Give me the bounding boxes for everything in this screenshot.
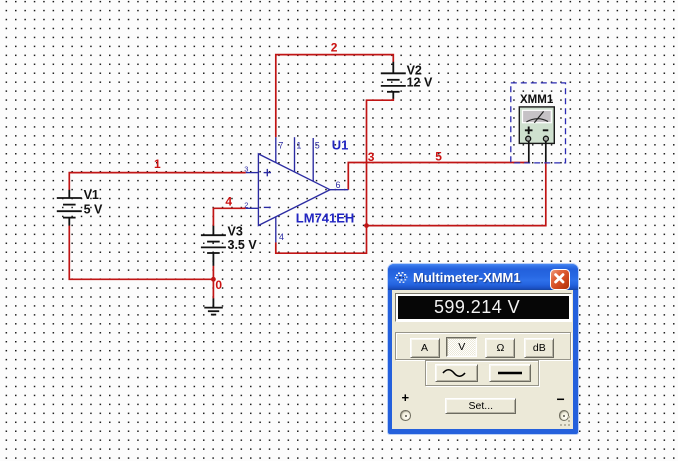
svg-text:3.5 V: 3.5 V xyxy=(228,238,258,252)
svg-text:XMM1: XMM1 xyxy=(520,94,554,106)
svg-text:4: 4 xyxy=(225,195,232,209)
svg-text:U1: U1 xyxy=(332,138,349,153)
svg-text:7: 7 xyxy=(278,140,283,150)
svg-text:1: 1 xyxy=(154,157,161,171)
svg-text:12 V: 12 V xyxy=(407,76,433,90)
svg-text:1: 1 xyxy=(296,140,301,150)
svg-text:V1: V1 xyxy=(84,188,99,202)
svg-text:V3: V3 xyxy=(228,225,243,239)
svg-text:LM741EH: LM741EH xyxy=(296,210,355,225)
svg-text:5: 5 xyxy=(435,150,442,164)
svg-text:6: 6 xyxy=(336,180,341,190)
svg-text:5 V: 5 V xyxy=(84,203,103,217)
svg-text:3: 3 xyxy=(368,150,375,164)
svg-text:3: 3 xyxy=(244,165,248,174)
svg-text:5: 5 xyxy=(315,140,320,150)
svg-text:4: 4 xyxy=(279,232,284,242)
svg-text:2: 2 xyxy=(331,41,338,55)
svg-text:0: 0 xyxy=(215,278,222,292)
svg-text:2: 2 xyxy=(244,201,248,210)
